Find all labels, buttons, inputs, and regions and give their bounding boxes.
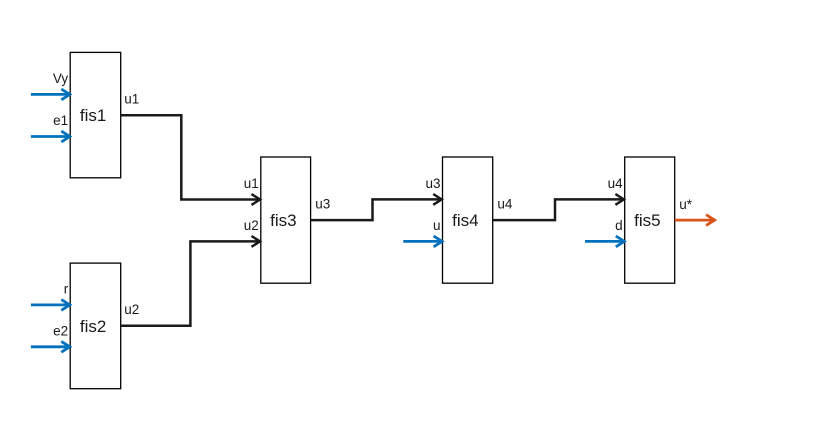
wire fis3.u3 to fis4 — [311, 194, 442, 220]
svg-text:u1: u1 — [244, 176, 259, 191]
output arrow u* (fis5) — [675, 215, 715, 226]
svg-text:fis5: fis5 — [634, 211, 660, 230]
svg-text:u3: u3 — [425, 176, 440, 191]
svg-text:u3: u3 — [315, 197, 330, 212]
input arrow u (fis4) — [403, 236, 442, 247]
input arrow d (fis5) — [585, 236, 624, 247]
svg-text:u2: u2 — [124, 302, 139, 317]
block fis1 — [70, 52, 121, 177]
svg-text:u*: u* — [679, 197, 693, 212]
svg-text:d: d — [615, 218, 623, 233]
svg-text:fis4: fis4 — [452, 211, 478, 230]
svg-text:r: r — [64, 281, 69, 296]
svg-text:Vy: Vy — [53, 71, 69, 86]
input arrow e2 — [31, 341, 70, 352]
input arrow Vy — [31, 89, 70, 100]
block fis3 — [261, 157, 311, 283]
svg-text:u1: u1 — [124, 92, 139, 107]
wire fis1.u1 to fis3 — [121, 115, 260, 205]
svg-text:fis2: fis2 — [80, 317, 106, 336]
wire fis4.u4 to fis5 — [493, 194, 624, 220]
block fis5 — [625, 157, 675, 283]
block fis4 — [443, 157, 493, 283]
svg-text:fis1: fis1 — [80, 106, 106, 125]
svg-text:fis3: fis3 — [270, 211, 296, 230]
block fis2 — [70, 263, 121, 389]
svg-text:u2: u2 — [244, 218, 259, 233]
input arrow e1 — [31, 131, 70, 142]
wire fis2.u2 to fis3 — [121, 236, 260, 326]
svg-text:e2: e2 — [53, 323, 68, 338]
svg-text:u4: u4 — [608, 176, 624, 191]
svg-text:u: u — [433, 218, 441, 233]
input arrow r — [31, 300, 70, 311]
svg-text:u4: u4 — [497, 197, 513, 212]
svg-text:e1: e1 — [53, 113, 68, 128]
